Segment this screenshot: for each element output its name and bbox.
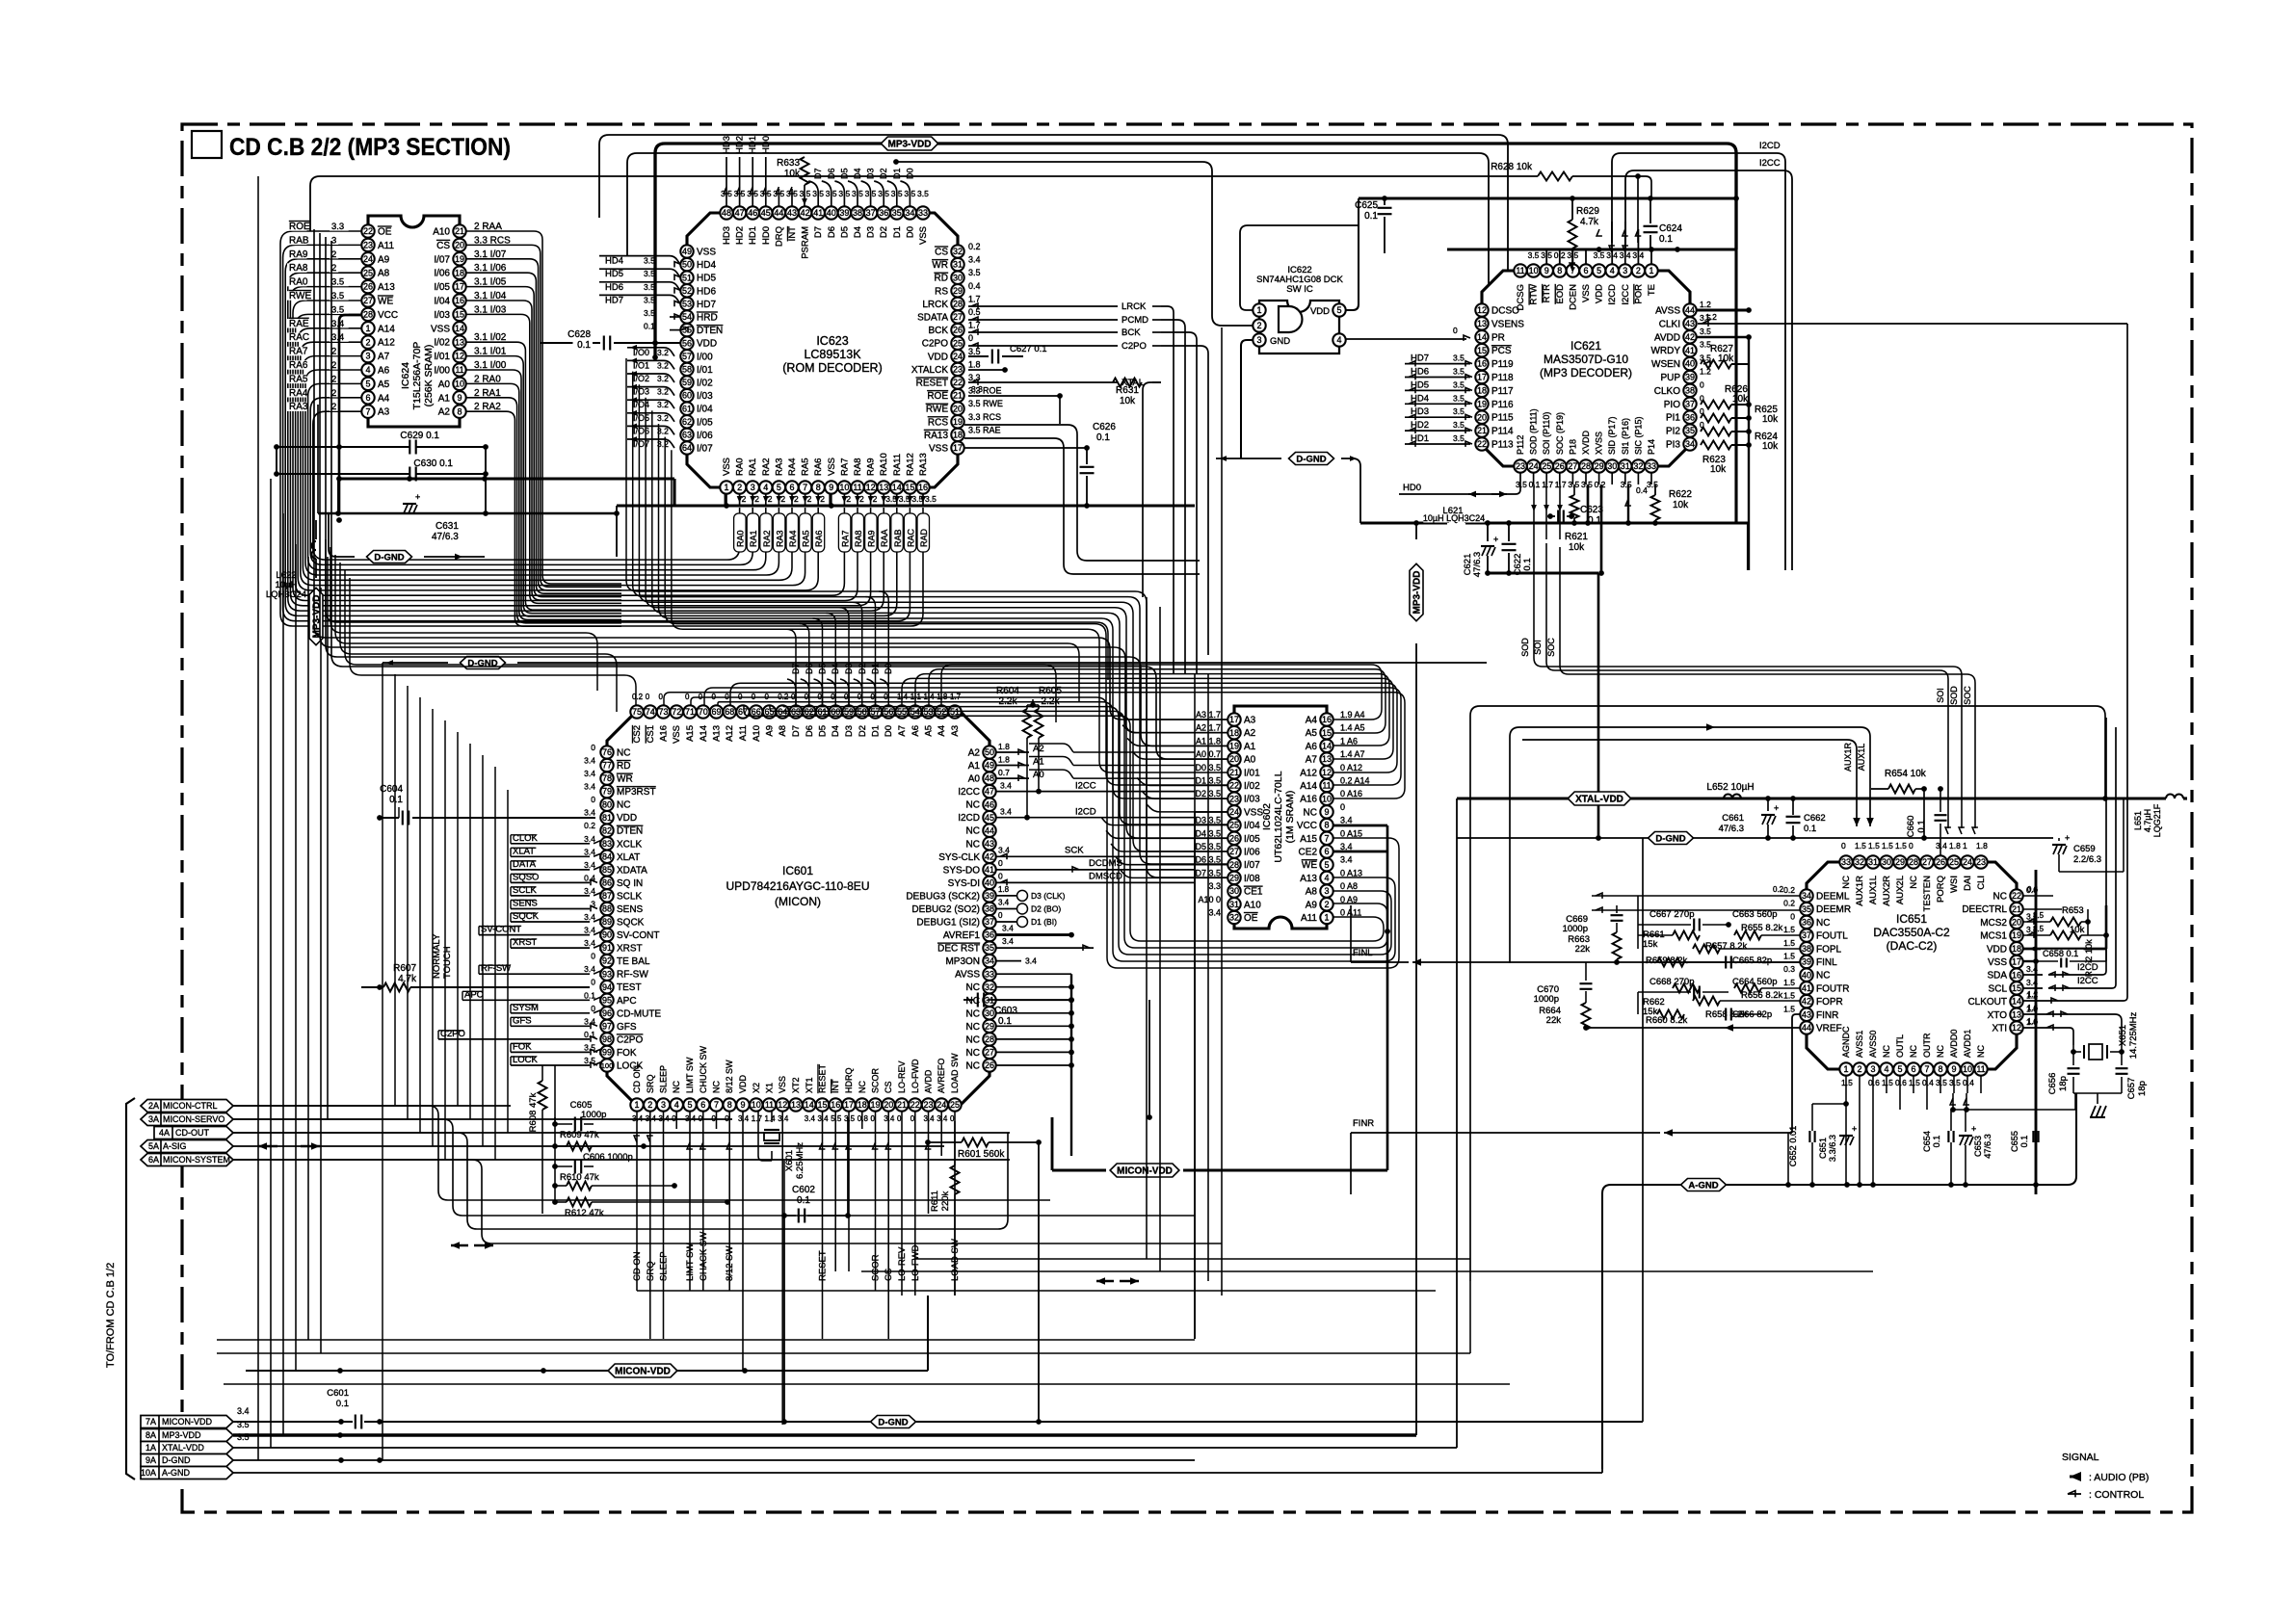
svg-text:33: 33 [1841, 857, 1851, 867]
svg-text:36: 36 [985, 930, 994, 940]
IC621 pin 36 PI1 [1683, 411, 1696, 424]
svg-text:HD7: HD7 [1411, 353, 1429, 364]
svg-text:A4: A4 [378, 393, 390, 404]
svg-text:4: 4 [365, 365, 370, 375]
svg-text:5.5: 5.5 [831, 1114, 842, 1123]
svg-text:17: 17 [455, 282, 464, 292]
svg-text:32: 32 [1633, 461, 1643, 471]
svg-text:RA0: RA0 [735, 458, 746, 476]
IC623 pin 43 INT [785, 206, 798, 219]
IC602 pin 1 A11 [1320, 911, 1333, 924]
wire verticals right of IC621 [1734, 249, 1737, 523]
svg-text:D2: D2 [879, 168, 888, 179]
IC601 pin 73 A16 [657, 705, 670, 718]
IC601 pin 91 XRST [600, 941, 613, 954]
svg-text:I/O7: I/O7 [633, 439, 649, 449]
svg-text:27: 27 [363, 296, 373, 305]
IC624 pin 18 I/06 [453, 267, 465, 279]
svg-text:L651: L651 [2133, 811, 2143, 830]
svg-text:15: 15 [1322, 728, 1332, 738]
IC601 pin 44 NC [983, 825, 995, 837]
svg-text:DTEN: DTEN [617, 826, 643, 837]
svg-text:A10: A10 [1244, 900, 1261, 910]
svg-text:21: 21 [455, 226, 464, 236]
svg-text:FOPL: FOPL [1816, 944, 1842, 955]
svg-text:NC: NC [1882, 1045, 1891, 1058]
svg-text:56: 56 [682, 338, 692, 348]
svg-text:0: 0 [998, 871, 1003, 880]
svg-text:I/O3: I/O3 [633, 387, 649, 397]
svg-text:46: 46 [985, 799, 994, 809]
IC601 pin 59 D3 [842, 705, 855, 718]
svg-text:9: 9 [1951, 1064, 1956, 1074]
svg-text:AVDD0: AVDD0 [1949, 1030, 1959, 1058]
IC621 pin 16 P119 [1475, 357, 1488, 370]
svg-text:29: 29 [953, 286, 963, 296]
svg-text:0: 0 [1453, 326, 1458, 335]
IC602 pin 23 I/03 [1227, 793, 1240, 805]
svg-text:DEBUG3 (SCK2): DEBUG3 (SCK2) [906, 891, 980, 902]
svg-text:C665 82p: C665 82p [1732, 955, 1772, 966]
svg-text:1.4 A7: 1.4 A7 [1340, 749, 1365, 759]
svg-text:C630 0.1: C630 0.1 [413, 458, 453, 469]
svg-text:RA10: RA10 [879, 453, 889, 476]
resistor R601 560k [928, 1141, 962, 1143]
svg-text:MCS1: MCS1 [1980, 931, 2007, 942]
svg-text:3.4: 3.4 [1340, 816, 1353, 825]
IC602 pin 26 I/05 [1227, 832, 1240, 845]
svg-text:VDD: VDD [1310, 306, 1330, 317]
svg-text:XRST: XRST [617, 944, 643, 955]
svg-text:FOUTL: FOUTL [1816, 931, 1848, 942]
crystal X651 14.725MHz [2072, 1045, 2074, 1052]
wire SDA I2CD [2023, 974, 2043, 976]
svg-text:I/01: I/01 [434, 352, 450, 362]
svg-text:44: 44 [1802, 1023, 1811, 1033]
svg-text:26: 26 [953, 326, 963, 335]
svg-text:3.5: 3.5 [1621, 480, 1632, 489]
svg-text:15: 15 [1477, 346, 1487, 355]
svg-text:NC: NC [966, 800, 980, 811]
svg-text:D3: D3 [866, 168, 876, 179]
svg-text:69: 69 [711, 707, 721, 717]
svg-text:39: 39 [839, 208, 849, 218]
wire DEECTRL pin21 [2023, 908, 2062, 910]
svg-text:C667 270p: C667 270p [1649, 909, 1694, 920]
IC623 pin 46 HD1 [747, 206, 759, 219]
svg-text:11: 11 [765, 1100, 774, 1110]
IC601 pin 55 A7 [895, 705, 908, 718]
svg-text:RESET: RESET [818, 1063, 828, 1093]
svg-text:1A: 1A [145, 1443, 156, 1453]
svg-text:2: 2 [780, 494, 785, 504]
svg-text:37: 37 [1685, 399, 1695, 408]
IC601 pin 90 SV-CONT [600, 929, 613, 941]
svg-text:22: 22 [2012, 891, 2021, 901]
svg-text:C663 560p: C663 560p [1732, 909, 1777, 920]
svg-text:49: 49 [682, 247, 692, 256]
svg-text:3.5: 3.5 [899, 494, 910, 504]
svg-text:(1M SRAM): (1M SRAM) [1284, 791, 1296, 844]
svg-text:P113: P113 [1491, 440, 1514, 451]
svg-text:49: 49 [985, 761, 994, 771]
svg-text:SIGNAL: SIGNAL [2062, 1452, 2099, 1463]
svg-text:58: 58 [682, 365, 692, 375]
wire vertical from C629/C630/C631 left [276, 447, 277, 474]
svg-text:I/06: I/06 [434, 269, 450, 279]
svg-text:0.1: 0.1 [584, 990, 595, 1000]
svg-text:DAC3550A-C2: DAC3550A-C2 [1873, 926, 1950, 939]
svg-text:22k: 22k [1546, 1015, 1562, 1026]
wire bottom sweeps right [637, 1290, 1436, 1292]
IC623 pin 5 RA3 [773, 481, 785, 493]
svg-text:+: + [2065, 833, 2070, 843]
svg-text:R622: R622 [1669, 489, 1692, 500]
svg-text:IC623: IC623 [816, 334, 848, 348]
IC624 pin 23 A11 [361, 239, 374, 251]
wire IC622 pin4 to IC621 PR [1346, 338, 1466, 340]
svg-text:3.2: 3.2 [657, 400, 669, 409]
wire AGNDC AVSS1 AVSS0 drops [1845, 1093, 1847, 1185]
svg-text:18: 18 [1229, 728, 1239, 738]
svg-text:XT1: XT1 [805, 1077, 814, 1093]
svg-text:2: 2 [768, 494, 773, 504]
capacitor C662 0.1 [1792, 798, 1794, 815]
svg-text:39: 39 [985, 891, 994, 901]
svg-text:PCMD: PCMD [1122, 315, 1148, 326]
svg-text:43: 43 [1802, 1009, 1811, 1019]
IC624 pin 28 VCC [361, 308, 374, 321]
IC621 pin 30 SID (P17) [1606, 459, 1619, 472]
svg-text:D7: D7 [813, 226, 824, 238]
svg-text:1.5: 1.5 [1783, 1004, 1795, 1013]
svg-text:17: 17 [1477, 373, 1487, 382]
svg-text:3.2: 3.2 [657, 360, 669, 370]
svg-text:D2 (BO): D2 (BO) [1031, 904, 1061, 914]
IC601 pin 32 NC [983, 981, 995, 993]
svg-text:RA8: RA8 [289, 263, 308, 274]
IC601 pin 75 CS2 [630, 705, 643, 718]
wire 7A MICON-VDD to C601 to D-GND [233, 1421, 353, 1423]
svg-text:(MP3 DECODER): (MP3 DECODER) [1540, 366, 1632, 380]
svg-text:62: 62 [682, 417, 692, 427]
svg-text:VSENS: VSENS [1491, 319, 1524, 329]
svg-text:3.5: 3.5 [1700, 327, 1711, 336]
svg-text:RA0: RA0 [736, 530, 746, 547]
svg-text:APC: APC [617, 996, 637, 1007]
IC623 pin 41 D7 [812, 206, 825, 219]
net XTAL-VDD hexagon [1568, 792, 1631, 805]
resistor R622 10k [1651, 495, 1660, 520]
svg-text:3.4: 3.4 [584, 808, 595, 818]
svg-text:I/05: I/05 [1244, 834, 1260, 845]
IC601 pin 65 A9 [763, 705, 776, 718]
svg-text:1.2: 1.2 [1705, 312, 1717, 322]
svg-text:D3 (CLK): D3 (CLK) [1031, 891, 1066, 901]
IC601 pin 70 A14 [697, 705, 709, 718]
svg-text:A8: A8 [778, 725, 788, 737]
svg-text:RD: RD [935, 274, 948, 284]
svg-text:1: 1 [1324, 913, 1329, 923]
IC601 pin 9 VDD [736, 1098, 749, 1111]
svg-text:A5: A5 [924, 725, 935, 737]
svg-text:30: 30 [953, 273, 963, 282]
svg-text:29: 29 [1895, 857, 1905, 867]
svg-text:RA1: RA1 [749, 530, 758, 547]
svg-text:VSS: VSS [672, 725, 682, 744]
svg-text:A15: A15 [1300, 834, 1317, 845]
svg-text:CLKI: CLKI [1659, 319, 1680, 329]
IC623 bottom pin drops [726, 494, 727, 506]
svg-text:76: 76 [602, 747, 612, 757]
crystal X601 6.25MHz [764, 1129, 779, 1131]
svg-text:90: 90 [602, 930, 612, 940]
svg-text:HD6: HD6 [605, 282, 623, 293]
svg-text:HD1: HD1 [1411, 433, 1429, 444]
wire stubs HD4-HD7 to IC623 [599, 256, 680, 265]
svg-text:47: 47 [985, 787, 994, 797]
IC601 pin 30 NC [983, 1007, 995, 1019]
svg-text:I/00: I/00 [434, 366, 450, 377]
wire NC pin22 [2023, 895, 2053, 897]
IC601 pin 39 DEBUG3 (SCK2) [983, 889, 995, 902]
svg-text:0.4: 0.4 [968, 281, 981, 291]
IC623 pin 61 I/04 [680, 403, 693, 415]
svg-text:3.4: 3.4 [1000, 807, 1012, 817]
wire top y159 [627, 153, 1489, 324]
svg-text:XTAL-VDD: XTAL-VDD [1575, 794, 1623, 804]
svg-text:31: 31 [1868, 857, 1878, 867]
resistors R627 R626 R625 R624 R623 on IC621 right pins [1701, 360, 1731, 369]
svg-text:34: 34 [985, 956, 994, 966]
IC621 pin 4 I2CD [1606, 264, 1619, 276]
wire A-GND rail [1602, 1093, 2076, 1469]
svg-text:19: 19 [455, 254, 464, 264]
IC601 pin 94 TEST [600, 981, 613, 993]
svg-text:35: 35 [1685, 426, 1695, 435]
IC623 pin 28 LRCK [951, 298, 963, 310]
svg-text:3.4: 3.4 [1936, 841, 1947, 851]
svg-text:X2: X2 [752, 1083, 761, 1093]
svg-text:2: 2 [647, 1100, 652, 1110]
svg-text:12: 12 [778, 1100, 787, 1110]
IC602 pin 25 I/04 [1227, 819, 1240, 831]
svg-text:15: 15 [2012, 983, 2021, 993]
svg-text:HD3: HD3 [1411, 406, 1429, 417]
svg-text:PR: PR [1491, 332, 1505, 343]
svg-text:A10: A10 [433, 227, 450, 238]
svg-text:D7: D7 [791, 725, 802, 737]
svg-text:1.5: 1.5 [1909, 1078, 1920, 1087]
svg-text:D7: D7 [813, 168, 823, 179]
svg-text:11: 11 [1516, 266, 1524, 275]
svg-text:50: 50 [985, 747, 994, 757]
svg-text:0 A8: 0 A8 [1340, 881, 1358, 891]
IC601 pin 29 NC [983, 1020, 995, 1033]
svg-text:RA13: RA13 [918, 453, 929, 476]
svg-text:MAS3507D-G10: MAS3507D-G10 [1544, 353, 1628, 366]
svg-text:10: 10 [455, 380, 464, 389]
svg-text:1: 1 [365, 324, 370, 333]
svg-text:NC: NC [1993, 892, 2007, 903]
IC602 pin 3 A8 [1320, 884, 1333, 897]
IC601 pin 3 SLEEP [657, 1098, 670, 1111]
svg-text:INT: INT [831, 1079, 840, 1093]
svg-text:MICON-SERVO: MICON-SERVO [163, 1114, 224, 1124]
svg-text:NC: NC [966, 1034, 980, 1045]
svg-text:59: 59 [682, 378, 692, 387]
svg-text:RA6: RA6 [289, 360, 308, 371]
svg-text:3.5: 3.5 [917, 189, 929, 198]
svg-text:0.4: 0.4 [1636, 485, 1648, 495]
svg-text:12: 12 [1477, 305, 1487, 315]
svg-text:AVREFO: AVREFO [937, 1059, 946, 1093]
svg-text:0.1: 0.1 [1522, 558, 1533, 570]
svg-text:1.5: 1.5 [1855, 841, 1866, 851]
IC623 pin 27 SDATA [951, 310, 963, 323]
svg-text:85: 85 [602, 865, 612, 875]
IC623 pin 62 I/05 [680, 415, 693, 428]
svg-text:P115: P115 [1491, 413, 1514, 424]
svg-text:3: 3 [1623, 266, 1627, 275]
IC651 pin 32 AUX1R [1853, 855, 1865, 868]
IC601 pin 79 MP3RST [600, 785, 613, 798]
svg-text:100: 100 [601, 1061, 614, 1070]
svg-text:SRQ: SRQ [646, 1074, 655, 1093]
IC601 pin 1 CD ON [630, 1098, 643, 1111]
svg-text:C656: C656 [2047, 1073, 2058, 1095]
svg-text:HD3: HD3 [722, 226, 732, 245]
svg-text:SOD (P111): SOD (P111) [1529, 408, 1539, 455]
svg-text:I/03: I/03 [697, 391, 713, 402]
svg-text:64: 64 [682, 443, 692, 453]
wire top long y183 [310, 176, 1538, 231]
IC624 pin 24 A9 [361, 252, 374, 265]
net D-GND hexagon left2 [383, 662, 448, 664]
svg-text:1: 1 [1843, 1064, 1848, 1074]
svg-text:NC: NC [1909, 876, 1919, 889]
svg-text:C653: C653 [1973, 1136, 1983, 1157]
svg-text:19: 19 [953, 417, 963, 427]
svg-text:A5: A5 [378, 380, 390, 390]
wire AVSS cluster left drop [1787, 1133, 1789, 1185]
wire AVSS NC bus right of IC601 [996, 973, 1071, 975]
svg-text:LRCK: LRCK [922, 300, 948, 310]
svg-text:8: 8 [1324, 821, 1329, 830]
svg-text:9A: 9A [145, 1455, 156, 1465]
svg-text:18: 18 [2012, 944, 2021, 954]
svg-text:D0: D0 [905, 226, 915, 238]
connector 9A D-GND [141, 1454, 233, 1467]
svg-text:RA2: RA2 [761, 458, 772, 476]
svg-text:26: 26 [363, 282, 373, 292]
svg-text:I/O2: I/O2 [633, 374, 649, 383]
svg-text:RA3: RA3 [774, 458, 784, 476]
svg-text:R633: R633 [777, 158, 800, 169]
IC601 pin 72 VSS [671, 705, 683, 718]
IC602 pin 13 A7 [1320, 752, 1333, 765]
svg-text:GND: GND [1270, 336, 1290, 347]
svg-text:21: 21 [2012, 904, 2021, 914]
wire bottom y595 below IC621 [1488, 572, 1598, 575]
IC623 pin 58 I/01 [680, 363, 693, 376]
svg-text:1.5: 1.5 [1882, 841, 1893, 851]
svg-text:4: 4 [1884, 1064, 1888, 1074]
svg-text:R629: R629 [1576, 206, 1599, 217]
svg-text:CD-OUT: CD-OUT [175, 1128, 209, 1138]
svg-text:24: 24 [363, 254, 373, 264]
svg-text:13: 13 [791, 1100, 801, 1110]
svg-text:42: 42 [801, 208, 810, 218]
IC IC651 DAC3550A-C2 DAC [1807, 862, 2017, 1069]
IC623 pin 26 BCK [951, 324, 963, 336]
svg-text:HD4: HD4 [1411, 393, 1429, 404]
svg-text:23: 23 [363, 241, 373, 250]
svg-text:A2: A2 [438, 407, 451, 418]
svg-text:XTAL-VDD: XTAL-VDD [162, 1443, 204, 1453]
svg-text:CD-MUTE: CD-MUTE [617, 1008, 661, 1019]
svg-text:RA4: RA4 [787, 458, 798, 476]
svg-text:I/07: I/07 [434, 254, 450, 265]
IC651 pin 13 XTO [2010, 1008, 2022, 1021]
IC623 pin 64 I/07 [680, 441, 693, 454]
svg-text:C626: C626 [1093, 422, 1116, 432]
IC601 pin 89 SQCK [600, 915, 613, 928]
IC621 pin 23 P112 [1514, 459, 1526, 472]
svg-text:I/06: I/06 [697, 431, 713, 441]
IC601 pin 15 RESET [816, 1098, 829, 1111]
IC623 pin 55 DTEN [680, 324, 693, 336]
svg-text:24: 24 [1529, 461, 1539, 471]
svg-text:HD0: HD0 [761, 226, 772, 245]
IC601 pin 11 X1 [763, 1098, 776, 1111]
svg-text:A13: A13 [712, 725, 723, 742]
IC601 pin 54 A6 [909, 705, 921, 718]
svg-text:I/O5: I/O5 [633, 413, 649, 423]
svg-text:CE2: CE2 [1299, 848, 1318, 858]
svg-text:41: 41 [985, 865, 994, 875]
svg-text:30: 30 [1882, 857, 1891, 867]
svg-text:18: 18 [858, 1100, 867, 1110]
IC623 pin 31 WR [951, 258, 963, 271]
svg-text:43: 43 [985, 839, 994, 849]
svg-text:C654: C654 [1922, 1131, 1932, 1152]
IC651 pin 25 WSI [1947, 855, 1960, 868]
svg-text:25: 25 [1542, 461, 1551, 471]
svg-text:43: 43 [1685, 319, 1695, 328]
IC601 pin 36 AVREF1 [983, 929, 995, 941]
svg-text:HRD: HRD [697, 313, 718, 324]
wire right rail down [2123, 798, 2124, 872]
svg-text:3.4: 3.4 [998, 899, 1010, 907]
svg-text:23: 23 [953, 365, 963, 375]
svg-text:1.8: 1.8 [1949, 841, 1961, 851]
IC623 pin 33 VSS [916, 206, 929, 219]
svg-text:0: 0 [1841, 841, 1846, 851]
svg-text:83: 83 [602, 839, 612, 849]
svg-text:86: 86 [602, 878, 612, 888]
IC623 pin 40 D6 [825, 206, 837, 219]
svg-text:46: 46 [748, 208, 757, 218]
svg-text:27: 27 [1568, 461, 1577, 471]
IC624 pin 13 I/02 [453, 336, 465, 349]
capacitor C626 0.1 [964, 447, 1087, 449]
IC601 pin 35 DEC RST [983, 941, 995, 954]
IC624 pin 25 A8 [361, 267, 374, 279]
svg-text:P14: P14 [1647, 439, 1656, 455]
wire stubs left of IC601 CLOK..LOCK [511, 843, 590, 845]
IC623 pin 39 D5 [838, 206, 851, 219]
